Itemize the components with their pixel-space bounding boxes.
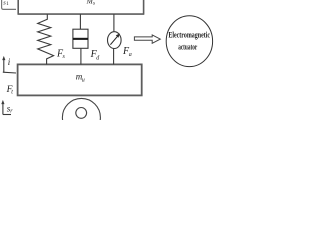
- svg-text:t: t: [11, 89, 13, 95]
- svg-text:i: i: [8, 57, 11, 67]
- svg-text:d: d: [96, 56, 100, 62]
- svg-text:Electromagnetic: Electromagnetic: [168, 29, 210, 39]
- svg-text:1: 1: [6, 2, 9, 7]
- svg-text:r: r: [10, 109, 13, 115]
- svg-text:s: s: [93, 1, 95, 7]
- svg-text:u: u: [82, 78, 85, 84]
- svg-text:s: s: [63, 54, 66, 60]
- svg-text:a: a: [129, 52, 132, 58]
- svg-text:actuator: actuator: [178, 42, 197, 52]
